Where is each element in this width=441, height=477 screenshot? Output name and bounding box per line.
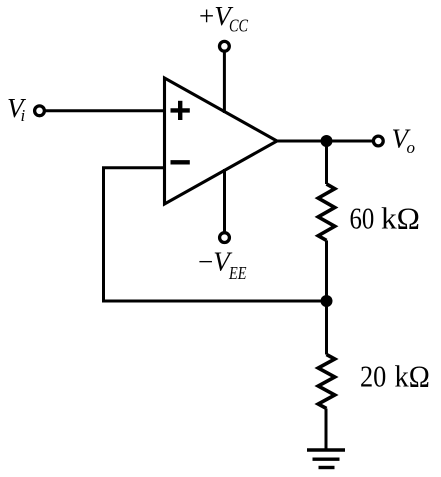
wire feedback node to R2	[325, 301, 328, 355]
wire R1 to feedback node	[325, 240, 328, 301]
ground	[307, 450, 345, 468]
svg-text:60: 60	[350, 200, 375, 235]
svg-text:CC: CC	[229, 16, 248, 36]
node Vi terminal	[35, 106, 45, 116]
svg-text:kΩ: kΩ	[395, 358, 430, 393]
op-amp minus input symbol	[171, 160, 190, 164]
svg-text:−V: −V	[198, 246, 233, 276]
resistor R1 60k	[318, 184, 335, 240]
resistor R2 20k	[318, 355, 335, 409]
node Vo terminal	[373, 136, 383, 146]
wire output node to R1	[325, 141, 328, 184]
junction output node	[321, 135, 333, 147]
svg-text:i: i	[21, 106, 26, 125]
wire feedback loop	[104, 168, 327, 301]
svg-text:EE: EE	[228, 263, 247, 283]
svg-text:o: o	[407, 138, 416, 157]
wire Vi input	[45, 109, 166, 112]
junction feedback node	[321, 295, 333, 307]
svg-text:kΩ: kΩ	[381, 200, 420, 235]
op-amp U1	[165, 78, 278, 204]
wire +Vcc supply	[223, 52, 226, 114]
op-amp plus input symbol	[171, 101, 190, 120]
wire output	[276, 140, 373, 143]
wire -Vee supply	[223, 169, 226, 233]
svg-text:20: 20	[360, 358, 386, 393]
wire R2 to ground	[325, 409, 328, 451]
node +Vcc terminal	[220, 41, 230, 51]
node -Vee terminal	[220, 233, 230, 243]
